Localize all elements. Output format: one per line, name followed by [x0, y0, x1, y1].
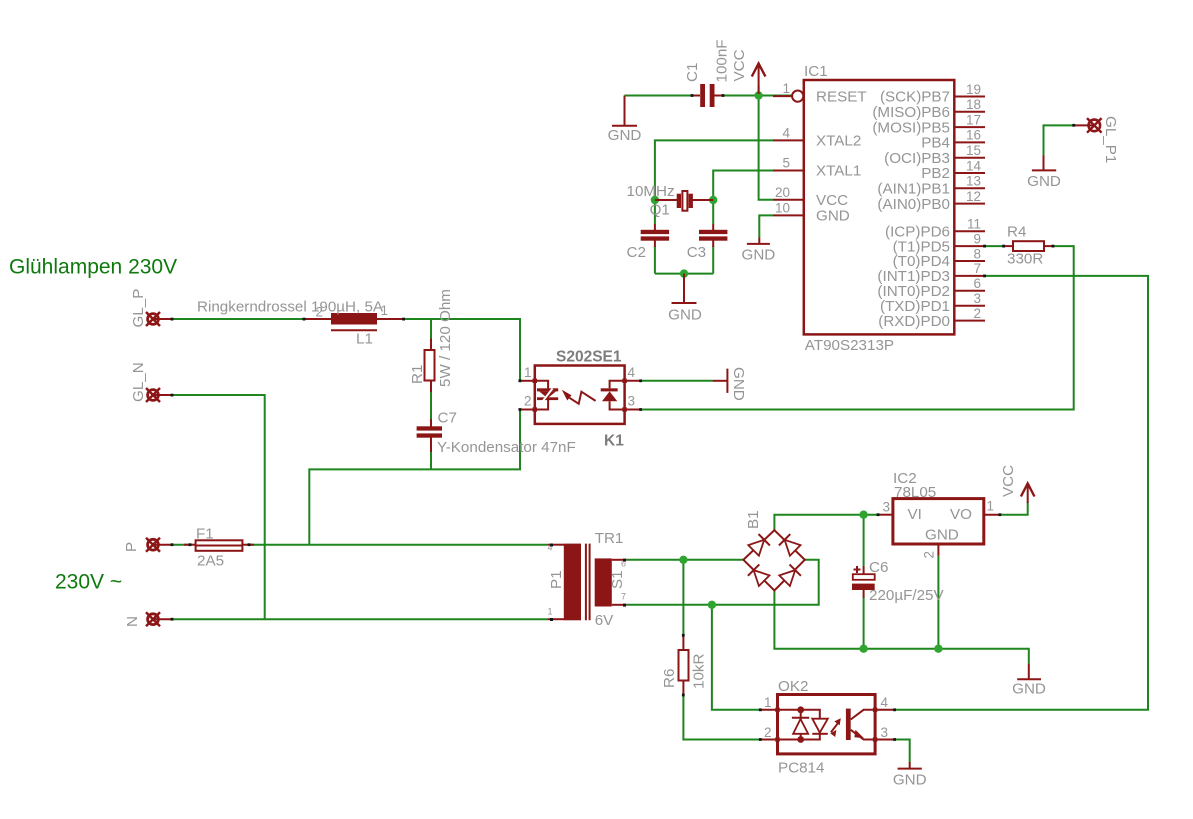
svg-text:6V: 6V — [595, 612, 614, 629]
junction crystal node B — [709, 196, 717, 204]
svg-text:C7: C7 — [438, 410, 457, 427]
wire net DC- ground rail — [774, 591, 1028, 664]
svg-text:GND: GND — [1012, 681, 1046, 698]
wire C3 bottom — [712, 246, 714, 274]
svg-text:Q1: Q1 — [650, 202, 670, 219]
svg-text:P1: P1 — [548, 570, 565, 589]
wire secondary top to R6 — [682, 560, 684, 636]
svg-text:PC814: PC814 — [778, 760, 824, 777]
svg-text:Y-Kondensator 47nF: Y-Kondensator 47nF — [437, 439, 576, 456]
OK2 pin stubs — [760, 709, 777, 711]
OK2 phototransistor — [846, 709, 851, 740]
wire R1 top connection — [430, 319, 432, 339]
wire net RESET right segment (C1 to IC1 pin1) — [715, 95, 792, 97]
capacitor C1 — [684, 39, 731, 107]
optocoupler OK2 PC814 — [760, 678, 894, 777]
svg-text:3: 3 — [882, 500, 890, 515]
ground symbol GND (crystal capacitors) — [668, 274, 702, 324]
svg-text:2A5: 2A5 — [197, 553, 224, 570]
pad GL_P1 (top right) — [1074, 116, 1119, 163]
wire K1 pin4 to GND symbol — [641, 380, 713, 382]
svg-text:7: 7 — [621, 592, 626, 602]
wire C6 top — [863, 515, 865, 566]
svg-text:TR1: TR1 — [595, 530, 624, 547]
svg-text:1: 1 — [782, 81, 790, 96]
svg-text:GL_P: GL_P — [130, 289, 147, 328]
OK2 light arrows — [831, 722, 839, 732]
pad GL_P — [130, 289, 172, 328]
fuse F1 — [184, 526, 254, 570]
svg-text:10kR: 10kR — [691, 654, 708, 689]
pad P — [123, 538, 172, 552]
svg-text:100nF: 100nF — [714, 39, 731, 82]
svg-text:4: 4 — [881, 695, 889, 710]
supply symbol VCC (RESET pullup) — [731, 49, 765, 94]
svg-text:12: 12 — [966, 189, 981, 204]
svg-text:7: 7 — [973, 261, 981, 276]
svg-text:L1: L1 — [356, 331, 373, 348]
svg-text:20: 20 — [775, 185, 790, 200]
junction secondary top / R6 — [679, 556, 687, 564]
svg-text:4: 4 — [628, 365, 636, 380]
svg-text:10: 10 — [775, 200, 790, 215]
svg-text:P: P — [123, 542, 140, 552]
diode B1 bottom-left — [754, 570, 770, 586]
diode B1 top-left — [748, 540, 764, 556]
bridge rectifier B1 — [743, 510, 804, 590]
wire R1 bottom to C7 — [430, 392, 432, 419]
svg-text:GND: GND — [893, 772, 927, 789]
svg-text:2: 2 — [315, 305, 323, 320]
diode B1 bottom-right — [779, 570, 795, 586]
OK2 LED diode up — [792, 717, 809, 719]
svg-text:(RXD)PD0: (RXD)PD0 — [878, 313, 950, 330]
wire VCC stem at RESET pullup — [758, 86, 760, 96]
svg-text:VCC: VCC — [731, 49, 748, 81]
OK2 internal LED rails — [778, 709, 801, 711]
svg-text:OK2: OK2 — [778, 678, 808, 695]
svg-text:9: 9 — [973, 231, 981, 246]
svg-text:GND: GND — [742, 247, 776, 264]
wire net VO to VCC arrow — [1000, 502, 1028, 515]
wire net P pad to fuse — [172, 544, 190, 546]
svg-text:230V ~: 230V ~ — [55, 571, 122, 594]
wire net GND IC1 pin10 — [759, 215, 773, 237]
wire net GL_P1 to GND — [1044, 125, 1075, 155]
wire net PD3 pin7 to OK2 pin4 — [895, 276, 1148, 710]
junction ground rail / IC2 GND — [934, 645, 942, 653]
net label Gluehlampen 230V — [9, 256, 177, 279]
svg-text:C1: C1 — [684, 63, 701, 82]
diode B1 top-right — [785, 540, 801, 556]
svg-text:14: 14 — [966, 158, 982, 173]
svg-text:15: 15 — [966, 143, 981, 158]
K1 output triac — [601, 388, 618, 391]
wire net DC+ bridge to IC2 VI — [774, 515, 878, 531]
K1 light arrow — [562, 390, 572, 401]
svg-text:GND: GND — [1027, 173, 1061, 190]
svg-text:GND: GND — [816, 208, 850, 225]
wire C2 bottom — [654, 246, 656, 274]
K1 box — [535, 366, 625, 424]
wire net VCC to IC1 pin20 — [759, 96, 773, 200]
transformer TR1 — [547, 530, 626, 629]
svg-text:N: N — [124, 616, 141, 627]
svg-text:GL_N: GL_N — [130, 362, 147, 402]
svg-text:XTAL2: XTAL2 — [816, 133, 861, 150]
net label 230V ~ — [55, 571, 122, 594]
ground symbol GND (OK2 pin3) — [893, 762, 927, 789]
K1 pin stubs — [520, 380, 535, 382]
svg-text:1: 1 — [987, 499, 995, 514]
junction DC+ / C6 — [859, 511, 867, 519]
svg-text:Ringkerndrossel 190µH, 5A: Ringkerndrossel 190µH, 5A — [197, 299, 384, 316]
svg-text:2: 2 — [764, 725, 772, 740]
svg-text:GND: GND — [668, 307, 702, 324]
K1 internal LED wiring — [535, 381, 548, 389]
OK2 LED diode down — [812, 733, 828, 735]
wire net PD5 pin9 to R4 — [985, 245, 1004, 247]
svg-text:19: 19 — [966, 82, 981, 97]
svg-text:C6: C6 — [869, 559, 888, 576]
wire OK2 pin3 to GND — [895, 740, 910, 763]
svg-text:VCC: VCC — [1000, 465, 1017, 497]
junction crystal gnd rail — [680, 269, 688, 277]
pad GL_N — [130, 362, 172, 402]
wire net N — [172, 618, 548, 620]
wire net XTAL2 — [655, 140, 773, 200]
svg-text:2: 2 — [973, 306, 981, 321]
pad N — [124, 612, 172, 627]
svg-text:AT90S2313P: AT90S2313P — [805, 337, 894, 354]
ground symbol GND (DC ground rail) — [1012, 664, 1046, 698]
svg-text:220µF/25V: 220µF/25V — [869, 587, 944, 604]
svg-text:1: 1 — [524, 365, 532, 380]
wire C7 bottom — [430, 452, 432, 469]
svg-text:B1: B1 — [745, 510, 762, 529]
svg-text:2: 2 — [524, 394, 532, 409]
svg-text:IC1: IC1 — [804, 63, 828, 80]
svg-text:R1: R1 — [409, 365, 426, 384]
svg-text:GL_P1: GL_P1 — [1102, 116, 1119, 163]
capacitor C2 — [627, 224, 670, 261]
svg-text:6: 6 — [973, 276, 981, 291]
svg-text:C2: C2 — [627, 244, 646, 261]
wire net GL_P pad to L1 — [172, 318, 304, 320]
pin connection ticks — [171, 94, 1076, 741]
wire crystal ground rail — [655, 273, 713, 275]
wire K1 pin2 net to P — [309, 410, 520, 545]
microcontroller IC1 AT90S2313P — [773, 63, 985, 354]
svg-text:VI: VI — [908, 506, 922, 523]
wire net XTAL1 — [713, 171, 773, 201]
svg-text:3: 3 — [628, 394, 636, 409]
solid state relay K1 S202SE1 — [520, 349, 641, 450]
svg-text:5W / 120 Ohm: 5W / 120 Ohm — [437, 289, 454, 387]
resistor R4 — [1004, 224, 1053, 268]
voltage regulator IC2 78L05 — [878, 470, 1000, 559]
svg-text:S202SE1: S202SE1 — [556, 349, 622, 366]
svg-text:GND: GND — [925, 527, 959, 544]
svg-text:C3: C3 — [687, 244, 706, 261]
resistor R1 — [409, 289, 454, 392]
svg-text:GND: GND — [730, 367, 747, 401]
svg-text:17: 17 — [966, 112, 981, 127]
svg-text:11: 11 — [967, 217, 981, 232]
junction secondary bottom / OK2 pin1 branch — [708, 601, 716, 609]
wire net secondary bottom (TR1 pin7 to bridge right) — [626, 560, 818, 605]
wire net GL_N — [172, 395, 265, 619]
svg-text:16: 16 — [966, 128, 981, 143]
wire net RESET left segment (GND stub to C1) — [625, 95, 701, 97]
ground symbol GND (IC1 pin10) — [742, 238, 776, 264]
junction ground rail / C6 — [859, 645, 867, 653]
svg-text:4: 4 — [782, 125, 790, 140]
svg-text:VO: VO — [950, 506, 972, 523]
junction crystal node A — [651, 196, 659, 204]
supply symbol VCC (IC2 output) — [1000, 465, 1035, 503]
wire net GL_P L1 to K1 pin1 corner — [404, 319, 520, 381]
svg-text:2: 2 — [922, 551, 937, 559]
capacitor C6 (polarized) — [852, 559, 944, 604]
wire net secondary top (TR1 pin6 to bridge) — [626, 559, 743, 561]
capacitor C7 — [417, 410, 576, 457]
svg-text:18: 18 — [966, 97, 981, 112]
svg-text:13: 13 — [966, 174, 981, 189]
svg-text:GND: GND — [608, 127, 642, 144]
wire R4 to K1 pin3 — [641, 246, 1074, 409]
svg-text:3: 3 — [881, 725, 889, 740]
wire crystal node A to C2 — [654, 200, 656, 224]
svg-text:R6: R6 — [661, 669, 678, 688]
wire R6 bottom to OK2 pin2 — [683, 695, 760, 740]
junction at VCC/RESET node — [754, 91, 762, 99]
K1 input LED — [537, 388, 558, 391]
svg-text:(AIN0)PB0: (AIN0)PB0 — [877, 196, 950, 213]
K1 pin junction squares — [533, 379, 537, 383]
ground symbol GND (RESET pullup C1) — [608, 96, 642, 145]
capacitor C3 — [687, 224, 728, 261]
OK2 pin junction squares — [775, 708, 779, 712]
svg-text:1: 1 — [764, 695, 772, 710]
svg-text:F1: F1 — [196, 526, 214, 543]
svg-text:8: 8 — [973, 246, 981, 261]
svg-text:1: 1 — [547, 607, 552, 617]
ground symbol GND (GL_P1 test point) — [1027, 155, 1061, 190]
ground symbol GND (K1 pin4, rotated) — [713, 367, 747, 401]
svg-text:78L05: 78L05 — [894, 484, 936, 501]
svg-text:XTAL1: XTAL1 — [816, 163, 861, 180]
svg-text:5: 5 — [782, 156, 790, 171]
wire crystal node B to C3 — [712, 200, 714, 224]
svg-text:1: 1 — [381, 303, 389, 318]
OK2 box — [778, 695, 876, 754]
svg-text:K1: K1 — [604, 433, 624, 450]
svg-text:330R: 330R — [1007, 251, 1043, 268]
wire IC2 pin2 to ground rail — [937, 556, 939, 649]
svg-text:S1: S1 — [609, 570, 626, 589]
svg-text:VCC: VCC — [816, 192, 848, 209]
wire net P fuse to TR1 primary — [249, 544, 548, 546]
svg-text:RESET: RESET — [816, 88, 867, 105]
inductor L1 — [197, 299, 404, 348]
svg-text:Glühlampen 230V: Glühlampen 230V — [9, 256, 177, 279]
svg-text:R4: R4 — [1007, 224, 1026, 241]
crystal Q1 — [627, 183, 714, 219]
svg-text:10MHz: 10MHz — [627, 183, 675, 200]
resistor R6 — [661, 636, 708, 696]
wire C6 bottom — [863, 598, 865, 649]
wire zero-cross branch to OK2 pin1 — [712, 605, 760, 710]
svg-text:3: 3 — [973, 291, 981, 306]
